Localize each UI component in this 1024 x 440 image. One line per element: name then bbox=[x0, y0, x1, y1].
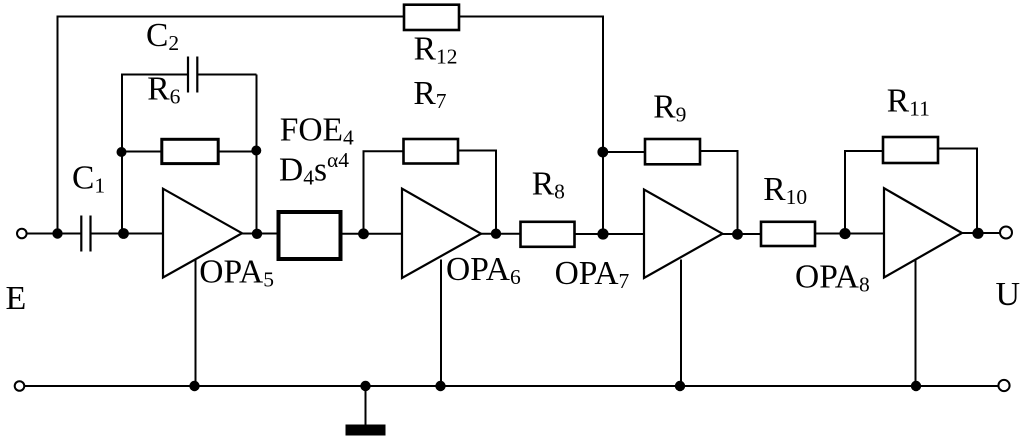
op-amp OPA8 bbox=[884, 188, 962, 277]
node OPA5 inverting input bbox=[118, 228, 129, 239]
node ground rail ground stub bbox=[360, 381, 370, 391]
terminal ground rail left bbox=[15, 381, 25, 391]
svg-text:R8: R8 bbox=[532, 165, 565, 203]
capacitor C1 bbox=[81, 216, 90, 252]
svg-text:R12: R12 bbox=[414, 30, 458, 68]
svg-text:OPA7: OPA7 bbox=[555, 255, 630, 293]
svg-text:R9: R9 bbox=[653, 89, 686, 127]
terminal ground rail right bbox=[998, 380, 1009, 391]
wire R7 left vertical bbox=[364, 151, 404, 234]
wire OPA5 inverting node up bbox=[121, 75, 123, 234]
node OPA8 input bbox=[839, 228, 850, 239]
node R6/C2 right junction bbox=[251, 146, 261, 156]
svg-text:R11: R11 bbox=[887, 83, 930, 121]
node ground rail OPA5 bbox=[189, 381, 199, 391]
node OPA7 output bbox=[732, 229, 743, 240]
node ground rail OPA6 bbox=[435, 381, 445, 391]
node OPA6 output bbox=[491, 229, 501, 239]
wire OPA6 to ground rail bbox=[440, 260, 442, 387]
wire R9 right vertical bbox=[700, 151, 738, 234]
wire feedback right vertical to OPA5 output bbox=[256, 75, 258, 234]
fractional-order element FOE4 block bbox=[279, 212, 341, 259]
wire top rail right of R12 to OPA7 input bbox=[459, 17, 603, 234]
wire R6 left bbox=[122, 151, 162, 153]
svg-text:D4sα4: D4sα4 bbox=[279, 148, 349, 190]
svg-text:C2: C2 bbox=[146, 17, 179, 55]
wire R11 right vertical bbox=[938, 149, 977, 234]
wire C1 to OPA5 input bbox=[91, 233, 164, 235]
wire input to C1 bbox=[27, 233, 82, 235]
wire R8 to OPA7 bbox=[575, 233, 645, 235]
wire input node up to top rail bbox=[57, 17, 59, 234]
resistor R9 bbox=[645, 139, 700, 164]
wire OPA5 to ground rail bbox=[195, 260, 197, 387]
ground bbox=[346, 386, 386, 436]
capacitor C2 bbox=[188, 57, 197, 93]
wire ground rail bbox=[25, 385, 998, 387]
wire OPA7 to ground rail bbox=[680, 260, 682, 387]
svg-text:C1: C1 bbox=[72, 160, 105, 198]
op-amp OPA5 bbox=[163, 189, 242, 278]
resistor R12 bbox=[404, 5, 459, 30]
wire R11 left vertical bbox=[845, 151, 883, 234]
node ground rail OPA7 bbox=[675, 381, 685, 391]
svg-text:OPA5: OPA5 bbox=[199, 254, 274, 292]
wire OPA6 output to R8 bbox=[481, 233, 521, 235]
terminal U output bbox=[1000, 227, 1012, 239]
wire OPA5 output to FOE block bbox=[242, 233, 279, 235]
wire R10 to OPA8 bbox=[815, 233, 884, 235]
node R6/C2 left junction bbox=[117, 147, 127, 157]
svg-text:R7: R7 bbox=[413, 75, 446, 113]
node OPA7 input bbox=[597, 228, 608, 239]
wire OPA7 output to R10 bbox=[723, 233, 762, 235]
wire OPA8 to ground rail bbox=[915, 259, 917, 386]
node input E junction bbox=[52, 228, 62, 238]
resistor R7 bbox=[404, 139, 459, 164]
wire top rail left of R12 bbox=[57, 16, 404, 18]
svg-text:U: U bbox=[996, 276, 1021, 313]
svg-text:FOE4: FOE4 bbox=[280, 111, 354, 149]
resistor R11 bbox=[883, 137, 938, 163]
wire C2 right bbox=[197, 74, 256, 76]
terminal E input bbox=[17, 229, 27, 239]
node OPA6 input bbox=[358, 228, 369, 239]
wire OPA8 output to terminal U bbox=[962, 232, 1000, 234]
node OPA5 output bbox=[252, 229, 262, 239]
svg-text:E: E bbox=[6, 280, 27, 317]
node ground rail OPA8 bbox=[911, 381, 921, 391]
wire R7 right vertical bbox=[458, 151, 496, 234]
op-amp OPA7 bbox=[644, 190, 723, 279]
op-amp OPA6 bbox=[402, 189, 481, 278]
wire FOE block to OPA6 bbox=[341, 233, 403, 235]
svg-text:OPA6: OPA6 bbox=[446, 251, 521, 289]
wire R6 right bbox=[218, 151, 256, 153]
wire R9 left bbox=[603, 151, 645, 153]
resistor R10 bbox=[761, 222, 815, 246]
node R9 branch junction bbox=[597, 147, 608, 158]
node OPA8 output bbox=[972, 228, 983, 239]
svg-text:R6: R6 bbox=[147, 71, 180, 109]
svg-text:R10: R10 bbox=[763, 171, 807, 209]
resistor R8 bbox=[521, 222, 575, 247]
svg-text:OPA8: OPA8 bbox=[795, 259, 870, 297]
wire C2 left bbox=[121, 74, 188, 76]
resistor R6 bbox=[162, 139, 218, 163]
